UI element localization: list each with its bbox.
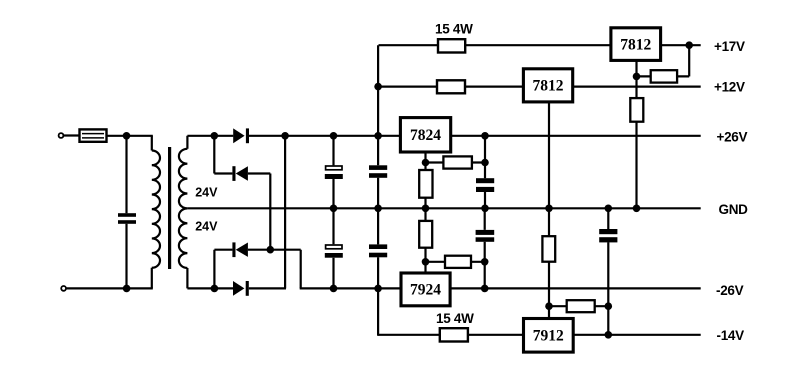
junction 7824 divider GND — [422, 205, 430, 213]
junction C6 GND — [481, 205, 489, 213]
junction node A — [211, 132, 219, 140]
wire 7824 output cap branch — [484, 136, 486, 209]
svg-text:+26V: +26V — [717, 129, 748, 144]
junction C2 +26 — [330, 132, 338, 140]
wire -26V rail right — [300, 287, 701, 289]
junction D1 cathode — [281, 132, 289, 140]
resistor R10 7912 adj horizontal — [567, 300, 595, 312]
terminal J2 bottom — [61, 286, 66, 291]
label +26V — [717, 129, 748, 144]
resistor R3 7812a adj horizontal — [651, 70, 677, 82]
svg-text:7824: 7824 — [410, 127, 441, 144]
junction C5 -26 — [374, 285, 382, 293]
junction C4 -26 — [330, 285, 338, 293]
wire +12V line — [378, 85, 701, 87]
junction 7912 output — [605, 331, 613, 339]
wire -26V rail left — [67, 287, 286, 289]
wire filter branch 1 — [332, 136, 334, 289]
resistor R6 7824 divider vertical — [419, 170, 432, 198]
junction C3 +26 — [374, 132, 382, 140]
resistor R11 15 4W bottom — [440, 328, 468, 341]
wire primary coil risers — [151, 136, 153, 289]
diode D2 — [232, 166, 248, 181]
junction 7824 adj right — [481, 159, 489, 167]
regulator U4 7924 — [401, 273, 450, 306]
junction primary bottom — [123, 285, 131, 293]
svg-text:24V: 24V — [195, 185, 218, 199]
wire +26V rail — [64, 134, 701, 137]
wire node B to D3 — [214, 250, 232, 289]
wire 7824 adj row — [426, 161, 486, 163]
svg-text:7812: 7812 — [620, 36, 651, 53]
label +12V — [714, 79, 745, 94]
diode D1 — [233, 128, 249, 143]
wire D3 anode to -26V — [248, 250, 301, 289]
junction 7924 output — [481, 285, 489, 293]
wire 7812a adj row — [637, 75, 690, 77]
wire 7924 output cap branch — [484, 208, 486, 288]
wire 7912 output cap branch — [607, 208, 609, 334]
regulator U2 7812 (+12V) — [523, 69, 572, 102]
svg-text:7812: 7812 — [533, 78, 564, 95]
wire D4 cathode riser — [284, 136, 287, 289]
capacitor C7 7924 output — [476, 230, 495, 242]
junction primary top — [123, 132, 131, 140]
label -14V — [717, 328, 745, 343]
label -26V — [716, 283, 744, 298]
junction 7812a adj — [633, 73, 641, 81]
wire 7812a divider branch — [635, 60, 637, 208]
svg-text:-14V: -14V — [717, 328, 745, 343]
junction D3 anode — [267, 246, 275, 254]
junction +17V output — [685, 41, 693, 49]
resistor R1 15 4W top — [438, 39, 465, 52]
junction 7912 adj — [545, 302, 553, 310]
wire +17V feedback riser — [688, 45, 690, 76]
wire secondary risers — [186, 136, 188, 289]
junction C8 GND — [605, 205, 613, 213]
wire node A to D2 — [214, 136, 232, 174]
label GND — [719, 202, 749, 217]
junction 7824 output — [481, 132, 489, 140]
resistor R9 7912 divider vertical — [542, 236, 555, 262]
transformer T1 secondary winding — [179, 149, 188, 268]
wire primary cap branch — [125, 136, 127, 289]
svg-text:+12V: +12V — [714, 79, 745, 94]
junction 7812b GND — [545, 205, 553, 213]
diode D4 — [233, 281, 249, 296]
transformer T1 core — [168, 147, 171, 269]
fuse F1 — [80, 129, 107, 141]
transformer T1 primary winding — [152, 151, 160, 268]
capacitor C2 electrolytic +26/GND — [325, 166, 343, 179]
junction node B — [211, 285, 219, 293]
svg-text:15 4W: 15 4W — [436, 311, 474, 326]
label 24V lower — [195, 220, 218, 234]
wire 7924 adj pin — [424, 208, 426, 273]
wire 7912 adj row — [549, 305, 608, 307]
svg-text:-26V: -26V — [716, 283, 744, 298]
capacitor C3 +26/GND — [369, 165, 387, 178]
resistor R8 7924 adj horizontal — [445, 256, 471, 268]
wire 7812b gnd pin — [548, 102, 550, 208]
wire filter branch 2 — [377, 45, 379, 336]
regulator U5 7912 — [524, 319, 574, 353]
terminal J1 top — [59, 133, 64, 138]
svg-text:7924: 7924 — [410, 282, 441, 299]
capacitor C1 primary — [118, 213, 136, 224]
regulator U3 7812 (+17V) — [611, 28, 661, 61]
diode D3 — [232, 242, 248, 257]
svg-text:15 4W: 15 4W — [435, 22, 473, 37]
resistor R5 7824 adj horizontal — [443, 156, 472, 168]
wire -14V line — [378, 334, 701, 336]
capacitor C6 7824 output — [476, 178, 494, 192]
label 15 4W top — [435, 22, 473, 37]
capacitor C5 GND/-26 — [369, 244, 387, 257]
wire 7924 adj row — [426, 261, 485, 263]
capacitor C4 electrolytic GND/-26 — [325, 245, 343, 258]
resistor R7 7924 divider vertical — [419, 221, 432, 248]
wire 7912 divider branch — [548, 208, 550, 318]
label 24V upper — [195, 185, 218, 199]
junction 7812a divider GND — [633, 205, 641, 213]
regulator U1 7824 — [400, 118, 450, 152]
junction C2 GND — [330, 205, 338, 213]
junction 7924 adj right — [481, 258, 489, 266]
capacitor C8 7912 output — [599, 229, 617, 242]
svg-text:7912: 7912 — [533, 328, 564, 345]
svg-text:GND: GND — [719, 202, 749, 217]
junction C3 GND — [374, 205, 382, 213]
resistor R2 +12V feed — [437, 80, 465, 93]
wire +17V line — [379, 44, 701, 46]
label +17V — [714, 39, 745, 54]
wire 7824 adj pin — [424, 152, 426, 208]
svg-text:24V: 24V — [195, 220, 218, 234]
label 15 4W bottom — [436, 311, 474, 326]
junction 7924 adj — [422, 258, 430, 266]
svg-text:+17V: +17V — [714, 39, 745, 54]
junction 7912 adj right — [605, 302, 613, 310]
wire D2 anode drop — [248, 174, 270, 250]
junction feed +12 — [374, 83, 382, 91]
resistor R4 7812a divider vertical — [630, 98, 643, 122]
wire GND rail — [187, 207, 700, 209]
junction 7824 adj — [422, 159, 430, 167]
